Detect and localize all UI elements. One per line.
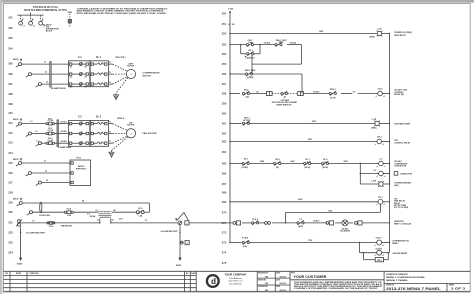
svg-text:(95-96): (95-96) — [304, 167, 310, 169]
svg-text:#16 GRN RED WHT: #16 GRN RED WHT — [26, 232, 46, 234]
svg-text:213: 213 — [8, 141, 13, 145]
svg-text:T3: T3 — [109, 82, 111, 84]
contactor C-1 pole 3 terminal labels — [70, 87, 88, 89]
primary wire H3 left — [33, 211, 65, 213]
svg-text:CONTACTOR: CONTACTOR — [394, 165, 406, 168]
svg-text:224: 224 — [8, 250, 13, 254]
enclosure temp switch note — [272, 96, 298, 106]
svg-text:H1: H1 — [82, 200, 84, 202]
oil reset relay coil OLR-R — [374, 250, 384, 257]
power supply input terminals — [71, 162, 73, 184]
svg-text:FU-6: FU-6 — [49, 226, 53, 228]
svg-text:PURPOSE: PURPOSE — [30, 273, 40, 275]
control terminal box 1 — [185, 221, 189, 226]
contactor C-2 enclosure — [69, 120, 90, 146]
svg-text:d: d — [211, 277, 216, 286]
svg-text:L-1P: L-1P — [377, 29, 382, 31]
svg-text:L2: L2 — [33, 25, 35, 27]
bus bar (30 amp) — [50, 62, 52, 88]
svg-text:259: 259 — [222, 102, 227, 106]
svg-text:208: 208 — [8, 92, 13, 96]
svg-text:203: 203 — [8, 36, 13, 40]
wire to PS terminal 2 — [32, 172, 71, 174]
svg-text:262: 262 — [222, 132, 227, 136]
svg-text:H4: H4 — [113, 209, 115, 212]
bus bar (6 amp) — [57, 120, 59, 147]
rung 261 rail dots — [229, 123, 390, 124]
rung 256 drop at 302 — [301, 74, 303, 94]
svg-text:FLS-1: FLS-1 — [252, 219, 258, 221]
svg-text:207: 207 — [8, 82, 13, 86]
svg-text:273: 273 — [222, 241, 227, 245]
GND lug symbol — [68, 20, 71, 23]
interconnect run 255 — [252, 63, 301, 65]
svg-text:CC 6A: CC 6A — [47, 139, 53, 142]
compressor motor hp text — [127, 63, 135, 67]
fan motor lead labels — [109, 121, 111, 143]
disconnect switch 2L1 — [16, 122, 22, 127]
contactor coil C-2 — [376, 171, 385, 178]
svg-text:265: 265 — [222, 162, 227, 166]
feeder bracket — [17, 13, 44, 16]
running branch rail dot — [389, 183, 390, 184]
rung 258 wire segments — [230, 93, 389, 95]
svg-text:#16: #16 — [353, 91, 356, 93]
svg-text:X2: X2 — [112, 220, 114, 222]
temperature switch TAS-3 contact — [242, 121, 249, 125]
rung 256 rail dot — [229, 73, 230, 74]
svg-text:209: 209 — [8, 102, 13, 106]
svg-text:L1: L1 — [44, 161, 46, 163]
svg-text:#16 BLU: #16 BLU — [313, 91, 320, 93]
drawing title text — [386, 273, 426, 282]
oil reset relay coil OLR-1 — [374, 240, 384, 247]
panel terminal b — [298, 91, 304, 95]
feeder tap label DB-W (power supply) — [13, 158, 22, 161]
overload OL-2 element 2 — [91, 132, 107, 135]
contactor C-1 pole 2 — [69, 72, 88, 76]
panel terminal c — [326, 221, 334, 225]
svg-text:220: 220 — [8, 210, 13, 214]
svg-text:L1: L1 — [44, 61, 46, 63]
svg-text:CONTACTOR: CONTACTOR — [400, 173, 412, 176]
svg-text:(AUX): (AUX) — [298, 225, 303, 228]
svg-text:+24C: +24C — [245, 95, 250, 98]
svg-text:DB-W: DB-W — [13, 199, 19, 201]
svg-text:T1: T1 — [109, 121, 111, 123]
temperature switch TAS-2 label — [245, 69, 257, 79]
svg-text:210: 210 — [8, 111, 13, 115]
ladder hot rail off-page arrow — [229, 10, 231, 13]
svg-text:264: 264 — [222, 150, 227, 154]
svg-text:YOUR COMPANY: YOUR COMPANY — [225, 272, 247, 276]
overload contact OL-1 — [304, 161, 311, 165]
svg-text:2005: 2005 — [343, 161, 347, 163]
distribution block label DB-W — [43, 24, 60, 32]
disconnect switch 1L2 — [26, 73, 32, 78]
loop marker — [40, 202, 42, 213]
svg-text:218: 218 — [8, 190, 13, 194]
rung 263 rail dots — [229, 141, 390, 142]
fan motor symbol — [126, 129, 135, 138]
svg-text:250: 250 — [222, 12, 227, 16]
svg-text:L3: L3 — [43, 25, 45, 27]
svg-text:(95-96): (95-96) — [322, 167, 328, 169]
svg-text:216: 216 — [8, 171, 13, 175]
disconnect stab L3 — [39, 19, 45, 28]
panel terminal d — [355, 221, 363, 225]
phase drop L3 — [40, 15, 42, 21]
svg-text:2T3: 2T3 — [84, 87, 87, 89]
GND lead dashed lower — [69, 23, 71, 27]
svg-text:PS-1: PS-1 — [77, 157, 83, 159]
svg-text:OL-1: OL-1 — [96, 57, 102, 59]
svg-text:DESIGNED BY: DESIGNED BY — [258, 273, 268, 275]
svg-text:FAN MOTOR: FAN MOTOR — [143, 132, 157, 135]
wire FU-3 to contactor C-2 — [55, 142, 69, 144]
ladder right rail — [388, 34, 390, 253]
fuse FU-1 label — [47, 118, 53, 122]
pilot light L-1P — [377, 31, 383, 37]
svg-text:POWER SCHEMATIC: POWER SCHEMATIC — [386, 273, 408, 276]
secondary junction X2 — [110, 222, 111, 223]
temperature switch TAS-1 contact — [275, 42, 284, 47]
svg-text:T2: T2 — [109, 72, 111, 74]
enclosure temp switch TS-1 — [281, 91, 288, 95]
rung 263 wire — [230, 141, 389, 143]
svg-text:(OPEN): (OPEN) — [247, 77, 254, 79]
overload contact OL-2 — [321, 161, 328, 165]
wire to PS terminal 1 — [22, 162, 70, 164]
svg-text:#16 BLK: #16 BLK — [60, 131, 67, 133]
svg-text:N/200: N/200 — [17, 263, 23, 265]
reset branch wire — [360, 252, 390, 254]
svg-text:L1: L1 — [23, 25, 25, 27]
disconnect switch 3L1 — [16, 162, 22, 167]
svg-text:L/100: L/100 — [228, 9, 234, 11]
temperature switch TAS-2 contact — [245, 72, 252, 76]
fuse FU-4 — [64, 211, 73, 214]
pilot light L-1R — [374, 121, 380, 127]
contactor C-1 pole 3 — [69, 82, 88, 86]
rung 265 junction — [360, 163, 361, 164]
secondary wire X2 run — [111, 222, 178, 224]
reset loop junction dots — [363, 252, 389, 253]
svg-text:x2: x2 — [384, 166, 386, 168]
svg-text:x2: x2 — [382, 255, 384, 257]
svg-text:x2: x2 — [382, 144, 384, 146]
timer contact TD-1 — [242, 161, 249, 165]
svg-text:211: 211 — [8, 121, 13, 125]
contactor branch drop — [359, 164, 361, 185]
overload OL-1 enclosure — [90, 61, 108, 87]
svg-text:X1: X1 — [32, 221, 34, 223]
svg-text:#16 BLU: #16 BLU — [290, 43, 297, 45]
rung 271 annotation — [394, 220, 412, 226]
auxiliary contact C-2 — [297, 221, 304, 225]
ladder left rail tap tick — [228, 24, 234, 26]
feeder tap label DB-W (compressor) — [13, 59, 22, 62]
svg-text:Your Address: Your Address — [229, 277, 243, 280]
svg-text:x1: x1 — [376, 166, 378, 168]
disconnect switch 2L3 — [36, 142, 42, 147]
svg-text:#16 BLK: #16 BLK — [60, 141, 67, 143]
svg-text:x1: x1 — [376, 204, 378, 206]
secondary wire X1 run — [21, 222, 100, 224]
overload contact OL-1 label — [304, 159, 310, 169]
compressor motor annotation — [143, 73, 160, 78]
customer field divider — [290, 279, 384, 281]
rung 271 rail dot right — [389, 222, 390, 223]
fan branch junction — [360, 173, 361, 174]
wire FU-1 to contactor C-2 — [55, 123, 69, 125]
wire FU-2 to contactor C-2 — [55, 133, 69, 135]
svg-text:257: 257 — [222, 82, 227, 86]
control terminal circle — [178, 221, 182, 225]
fuse FU-5 label — [138, 208, 143, 217]
panel terminal 1 on rail — [233, 221, 241, 225]
svg-text:222: 222 — [8, 230, 13, 234]
GND lead dashed upper — [69, 14, 71, 20]
control power wire to ladder — [189, 222, 233, 224]
svg-text:L2: L2 — [45, 72, 47, 74]
svg-text:L3: L3 — [46, 81, 48, 83]
svg-text:CAN BE RESET: CAN BE RESET — [392, 252, 408, 255]
secondary fuse FU-6 — [47, 222, 55, 225]
svg-text:T2: T2 — [109, 131, 111, 133]
drawn by fields — [258, 272, 287, 293]
svg-text:270: 270 — [222, 210, 227, 214]
control terminal box 2 — [185, 241, 189, 246]
phase drop L1 — [20, 15, 22, 21]
svg-text:1.0A: 1.0A — [67, 214, 72, 217]
svg-text:269: 269 — [222, 200, 227, 204]
svg-text:(COMP): (COMP) — [242, 167, 249, 169]
svg-text:TAS-2 185F: TAS-2 185F — [245, 69, 257, 72]
timer return drop to rung 271 — [285, 212, 287, 223]
svg-text:T3: T3 — [109, 141, 111, 143]
svg-text:202: 202 — [8, 26, 13, 30]
svg-text:ATB-1 MTR-1: ATB-1 MTR-1 — [116, 56, 127, 59]
svg-text:SCCR 5KA RMS SYMMETRICAL AT 57: SCCR 5KA RMS SYMMETRICAL AT 575V — [24, 9, 67, 12]
svg-text:x1: x1 — [374, 245, 376, 247]
wire to PS terminal 3 — [41, 182, 70, 184]
svg-text:L3: L3 — [36, 140, 38, 142]
svg-text:3/19/13: 3/19/13 — [279, 283, 287, 285]
neutral link stack — [16, 220, 22, 227]
svg-text:RELAY (M): RELAY (M) — [394, 93, 404, 96]
ground bond triangle — [177, 212, 188, 220]
reset branch drop — [359, 243, 361, 253]
overload contact OL-2 label — [322, 159, 328, 169]
svg-text:OLR-R: OLR-R — [376, 248, 383, 250]
svg-text:2013-376 NEMA 7 PANEL: 2013-376 NEMA 7 PANEL — [386, 287, 441, 291]
flow switch FLS-1 contact — [252, 221, 259, 225]
wire 2L3 to fuse FU-3 — [41, 142, 46, 144]
fan motor ground lead — [112, 137, 128, 151]
secondary junction X1 — [99, 222, 100, 223]
disconnect switch 4L2 — [27, 211, 33, 216]
solenoid SOL-1 — [342, 220, 348, 226]
ground bond arrow — [175, 218, 177, 221]
fuse FU-2 label — [47, 128, 53, 132]
temperature switch TAS-3 label — [243, 117, 251, 122]
svg-text:HIGH AIR TEMP: HIGH AIR TEMP — [394, 122, 411, 125]
svg-text:275: 275 — [222, 261, 227, 265]
rung 258 annotation — [394, 89, 407, 96]
contactor C-2 pole 2 — [69, 132, 88, 136]
wire 2L2 to fuse FU-2 — [32, 133, 46, 135]
svg-text:NO: NO — [5, 273, 8, 275]
svg-text:MOTOR: MOTOR — [127, 125, 135, 127]
fan motor hp text — [127, 123, 135, 127]
rung 253 rail dot — [229, 44, 230, 45]
svg-text:DB-W: DB-W — [13, 119, 19, 121]
ladder left rail — [229, 14, 231, 243]
revision table headers — [5, 272, 196, 275]
transformer terminal labels H — [96, 209, 116, 212]
svg-text:201: 201 — [8, 16, 13, 20]
contactor C-2 pole 3 — [69, 141, 88, 145]
fuse FU-5 clips — [136, 210, 144, 214]
svg-text:268: 268 — [222, 191, 227, 195]
pilot light L-1W — [378, 181, 384, 187]
svg-text:2T1: 2T1 — [84, 67, 87, 69]
disconnect switch 2L2 — [26, 132, 32, 137]
interconnect drop to rung 256 — [251, 54, 253, 74]
rung 271 junction at 285 — [285, 222, 286, 223]
svg-text:x1: x1 — [375, 144, 377, 146]
border bottom accent — [3, 291, 470, 293]
contactor C-1 pole 1 — [69, 62, 88, 66]
svg-text:MOTOR: MOTOR — [143, 75, 152, 77]
svg-text:2T2: 2T2 — [84, 77, 87, 79]
svg-text:253: 253 — [222, 43, 227, 47]
proprietary note — [294, 281, 383, 290]
primary wire H1 — [22, 202, 149, 204]
svg-text:3/19/13: 3/19/13 — [279, 276, 287, 278]
field wiring dashed T2 — [113, 73, 127, 75]
terminal 2 stub — [180, 242, 183, 244]
overload OL-2 element 1 — [91, 122, 107, 125]
fan motor ground — [109, 151, 114, 158]
svg-text:CC 6A: CC 6A — [47, 129, 53, 132]
svg-text:P-OLR: P-OLR — [242, 237, 249, 239]
svg-text:215: 215 — [8, 161, 13, 165]
svg-text:DB-W: DB-W — [13, 59, 19, 61]
title block top border — [3, 270, 470, 272]
company name block — [225, 272, 247, 285]
primary wire FU-5 to elbow — [144, 211, 149, 213]
svg-text:WITH NATIONAL ELECTRICAL CODE: WITH NATIONAL ELECTRICAL CODE (NEC) AND … — [77, 12, 168, 15]
transformer T-1 primary winding — [98, 211, 112, 212]
svg-text:221: 221 — [8, 220, 13, 224]
power supply PS-1 enclosure — [70, 160, 91, 186]
svg-text:267: 267 — [222, 182, 227, 186]
contactor coil C-1 — [376, 161, 385, 168]
svg-text:L2: L2 — [45, 171, 47, 173]
svg-text:255: 255 — [222, 62, 227, 66]
svg-text:x1: x1 — [376, 96, 378, 98]
svg-text:Your Phone no: Your Phone no — [228, 281, 243, 283]
rung 271 wire segments — [242, 222, 390, 224]
svg-text:2003: 2003 — [290, 161, 294, 163]
svg-text:COMPRESSOR: COMPRESSOR — [143, 73, 160, 75]
svg-text:L2: L2 — [35, 131, 37, 133]
contactor C-1 enclosure — [69, 61, 90, 87]
svg-text:SOLENOID: SOLENOID — [340, 231, 350, 233]
svg-text:CR-2: CR-2 — [378, 89, 384, 91]
+24VDC source tap arrow — [245, 55, 247, 57]
pilot light L-1P label — [370, 29, 383, 39]
svg-text:219: 219 — [8, 201, 13, 205]
svg-text:DATE: DATE — [16, 272, 22, 275]
svg-text:x1: x1 — [374, 255, 376, 257]
disconnect stab L1 — [19, 19, 25, 28]
svg-text:252: 252 — [222, 32, 227, 36]
CR-1 seal-in branch left leg — [240, 45, 242, 54]
fan field wiring dashed T2 — [113, 133, 127, 135]
panel terminal a — [267, 91, 273, 95]
svg-text:254: 254 — [222, 52, 227, 56]
disconnect switch 3L3 — [36, 181, 42, 186]
fan motor lead stubs — [109, 124, 113, 144]
revision table frame — [3, 271, 196, 292]
neutral drop from link — [20, 226, 22, 258]
reset pushbutton — [375, 258, 383, 262]
svg-text:1L1: 1L1 — [70, 67, 73, 69]
rung 258 rail dots — [229, 93, 390, 94]
wire L1 to contactor C-1 — [22, 63, 69, 65]
feeder tap label DB-W (transformer) — [13, 198, 22, 201]
svg-text:H1: H1 — [96, 210, 98, 212]
svg-text:206: 206 — [8, 72, 13, 76]
terminal pair — [265, 222, 271, 225]
rung 273 annotation — [392, 241, 410, 246]
svg-text:212: 212 — [8, 131, 13, 135]
svg-text:3/19/13: 3/19/13 — [279, 290, 287, 292]
pressure switch PRS-1 label — [330, 89, 337, 100]
svg-text:NEMA 7 PANEL: NEMA 7 PANEL — [386, 279, 409, 282]
disconnect stab L2 — [29, 19, 35, 28]
field wiring dashed T1 — [113, 64, 128, 71]
rung 253 wire — [230, 44, 301, 46]
circuit breaker CB-1 label — [248, 40, 254, 44]
fan contactor annotation — [394, 172, 412, 176]
CR-1 seal-in contact — [247, 51, 254, 55]
svg-text:MOTOR: MOTOR — [127, 65, 135, 67]
svg-text:#16 BLU: #16 BLU — [313, 221, 320, 223]
svg-text:L-1R: L-1R — [372, 119, 377, 121]
disconnect switch 1L1 — [16, 63, 22, 68]
wire 2L1 to fuse FU-1 — [22, 123, 46, 125]
svg-text:30 AMP BUS: 30 AMP BUS — [51, 87, 67, 90]
wire gauge labels #16 — [60, 121, 67, 142]
svg-text:#16: #16 — [256, 91, 259, 93]
compressor motor ground lead — [116, 78, 128, 94]
svg-text:CC 6A: CC 6A — [47, 119, 53, 122]
control neutral junction — [179, 232, 180, 233]
svg-text:x2: x2 — [383, 96, 385, 98]
svg-text:CHKD: CHKD — [191, 273, 197, 275]
svg-text:x2: x2 — [384, 176, 386, 178]
motor leads solid stubs — [109, 64, 113, 84]
timer contact TD-1 label — [242, 158, 249, 169]
timer coil return drop — [379, 204, 381, 212]
fan field wiring dashed T3 — [113, 136, 128, 143]
disconnect switch 4L1 — [17, 202, 23, 207]
svg-text:CR-1: CR-1 — [377, 137, 383, 139]
